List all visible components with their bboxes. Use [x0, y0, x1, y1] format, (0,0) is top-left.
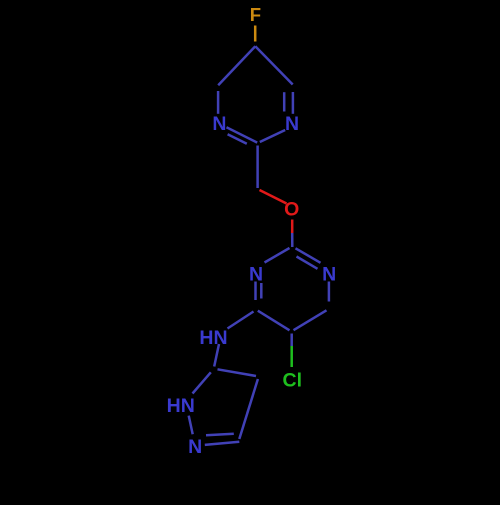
svg-text:F: F — [250, 4, 261, 25]
svg-text:Cl: Cl — [283, 370, 303, 392]
svg-text:N: N — [188, 436, 202, 458]
svg-text:N: N — [285, 113, 299, 135]
svg-text:O: O — [284, 199, 299, 221]
svg-text:HN: HN — [199, 327, 227, 349]
svg-text:N: N — [212, 113, 226, 135]
svg-text:HN: HN — [167, 395, 195, 417]
svg-text:N: N — [249, 264, 263, 286]
svg-text:N: N — [322, 264, 336, 286]
